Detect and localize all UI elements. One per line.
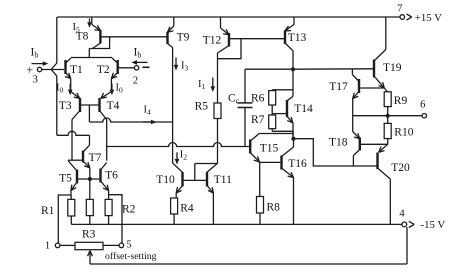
svg-text:T15: T15 bbox=[260, 143, 279, 155]
svg-text:6: 6 bbox=[420, 100, 425, 111]
svg-text:R3: R3 bbox=[82, 229, 96, 241]
svg-text:3: 3 bbox=[33, 74, 38, 85]
svg-text:T10: T10 bbox=[156, 174, 175, 186]
svg-text:T7: T7 bbox=[89, 152, 102, 164]
svg-text:R5: R5 bbox=[195, 101, 209, 113]
svg-text:T19: T19 bbox=[383, 62, 402, 74]
svg-text:T9: T9 bbox=[177, 32, 190, 44]
svg-text:R1: R1 bbox=[41, 205, 55, 217]
svg-text:R8: R8 bbox=[267, 202, 281, 214]
svg-text:T3: T3 bbox=[59, 100, 72, 112]
svg-text:R10: R10 bbox=[394, 127, 413, 139]
svg-text:T16: T16 bbox=[288, 158, 307, 170]
svg-text:T18: T18 bbox=[329, 137, 348, 149]
svg-text:T13: T13 bbox=[288, 32, 307, 44]
svg-text:4: 4 bbox=[399, 208, 405, 219]
svg-text:T8: T8 bbox=[76, 31, 89, 43]
svg-text:T4: T4 bbox=[107, 100, 120, 112]
svg-text:T2: T2 bbox=[97, 64, 110, 76]
svg-text:-15 V: -15 V bbox=[421, 219, 446, 231]
svg-text:R7: R7 bbox=[251, 114, 265, 126]
svg-text:T14: T14 bbox=[294, 103, 313, 115]
svg-text:7: 7 bbox=[397, 4, 402, 15]
svg-text:+15 V: +15 V bbox=[415, 12, 442, 24]
svg-text:T20: T20 bbox=[391, 162, 410, 174]
svg-text:1: 1 bbox=[45, 241, 50, 252]
svg-text:T1: T1 bbox=[70, 64, 83, 76]
svg-text:T17: T17 bbox=[329, 81, 348, 93]
svg-text:R6: R6 bbox=[251, 93, 265, 105]
svg-text:T5: T5 bbox=[59, 172, 72, 184]
svg-text:R4: R4 bbox=[180, 203, 194, 215]
svg-text:R9: R9 bbox=[394, 95, 408, 107]
svg-text:T6: T6 bbox=[105, 169, 118, 181]
svg-text:5: 5 bbox=[126, 240, 131, 251]
svg-text:T11: T11 bbox=[214, 174, 232, 186]
svg-text:R2: R2 bbox=[122, 204, 136, 216]
svg-text:T12: T12 bbox=[203, 35, 222, 47]
svg-text:2: 2 bbox=[133, 76, 138, 87]
svg-text:offset-setting: offset-setting bbox=[105, 251, 157, 262]
